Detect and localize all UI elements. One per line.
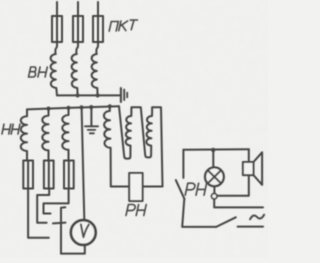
- fuse F6 (НН phase C): [64, 161, 74, 189]
- wire from F4 to selector contact 1: [28, 189, 49, 238]
- node star-point phase B: [76, 93, 80, 97]
- lamp HL: [205, 167, 224, 186]
- wire lamp to terminal: [213, 186, 215, 193]
- switch SA voltmeter selector blade: [61, 207, 65, 253]
- wire down to lamp: [212, 150, 214, 168]
- node НН bus / aux winding: [108, 104, 112, 108]
- label ВН: [29, 67, 48, 77]
- node НН bus / voltmeter feeder: [79, 105, 83, 109]
- bell HA (loudspeaker symbol): [243, 152, 262, 185]
- winding ВН phase B: [72, 54, 78, 95]
- label ~ (AC supply): [250, 215, 264, 220]
- voltmeter PV: [71, 220, 96, 245]
- fuse F2 ПКТ phase B: [73, 16, 83, 42]
- wire jog below F1: [55, 42, 57, 54]
- label НН: [2, 124, 20, 134]
- label РН (relay): [126, 205, 146, 216]
- label РН (contact): [185, 183, 206, 195]
- wire ground stub: [90, 107, 92, 126]
- wire voltmeter return: [61, 245, 85, 253]
- winding aux hairpin chain with return legs: [119, 106, 163, 186]
- ground (ВН neutral, drawn sideways): [121, 88, 127, 102]
- wire blade to bottom: [182, 199, 216, 227]
- label ПКТ: [109, 20, 137, 31]
- wire phase C incoming: [97, 2, 99, 16]
- wire terminal down to supply: [214, 199, 263, 208]
- winding aux (open-delta) phase A coil: [104, 106, 129, 186]
- node НН bus / ground stub: [89, 105, 93, 109]
- winding НН phase A: [21, 109, 27, 160]
- fuse F1 ПКТ phase A: [52, 16, 62, 42]
- wire lamp circuit top: [183, 148, 248, 151]
- fuse F3 ПКТ phase C: [93, 16, 103, 42]
- switch SA contact tick: [53, 222, 66, 225]
- ground (НН neutral): [85, 126, 98, 133]
- relay РН (voltage relay) coil box: [129, 173, 142, 201]
- wire НН bus: [27, 106, 119, 109]
- winding ВН phase A: [51, 54, 57, 95]
- fuse F5 (НН phase B): [44, 161, 54, 189]
- wire from F6 to selector contact 3: [44, 189, 69, 214]
- wire phase B incoming: [77, 2, 79, 16]
- fuse F4 (НН phase A): [23, 161, 33, 189]
- wire ВН star-point bus: [57, 94, 120, 96]
- wire supply contact: [238, 226, 263, 228]
- winding НН phase C: [62, 108, 68, 161]
- wire terminal to bell branch: [217, 149, 249, 196]
- node lamp branch: [211, 148, 215, 152]
- wire jog below F2: [76, 42, 78, 54]
- wire jog below F3: [96, 42, 98, 54]
- winding НН phase B: [42, 109, 48, 161]
- wire from F5 to selector contact 2: [37, 189, 49, 223]
- node star-point phase C: [96, 93, 100, 97]
- wire voltmeter feeder: [82, 107, 85, 219]
- label V (voltmeter): [81, 224, 89, 237]
- switch РН contact blade: [176, 180, 185, 199]
- terminal node (open circle): [212, 194, 217, 199]
- node НН bus / winding C: [66, 106, 70, 110]
- switch SB blade (supply switch): [216, 217, 236, 227]
- node НН bus / winding B: [46, 107, 50, 111]
- wire switch side: [182, 150, 184, 178]
- winding ВН phase C: [92, 54, 98, 95]
- wire phase A incoming: [56, 2, 58, 16]
